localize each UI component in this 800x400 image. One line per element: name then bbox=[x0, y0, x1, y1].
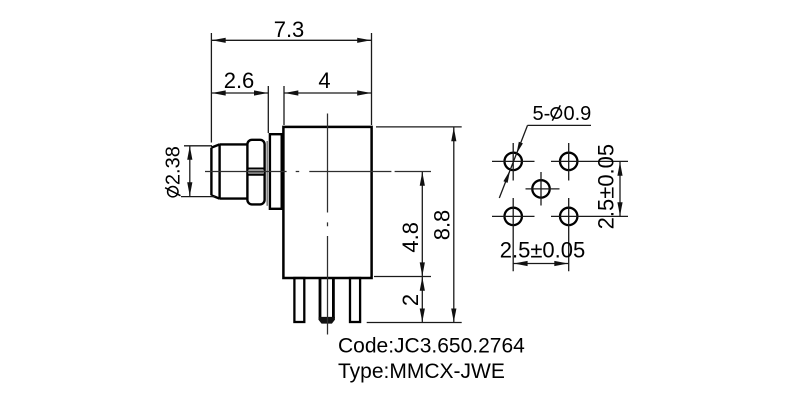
dimension 2.5 bottom arrows bbox=[514, 261, 528, 266]
horizontal centerline bbox=[205, 171, 431, 173]
contact slot upper line bbox=[247, 168, 264, 170]
hole MID circle bbox=[532, 180, 549, 197]
dimension 4.8 arrows bbox=[420, 172, 425, 186]
svg-text:Type:MMCX-JWE: Type:MMCX-JWE bbox=[338, 360, 505, 383]
extension line 4.8/2 boundary (y=276.5) bbox=[374, 276, 431, 278]
pin 1 (left) bbox=[294, 278, 304, 322]
flange bbox=[270, 134, 282, 209]
svg-text:5-: 5- bbox=[533, 103, 551, 125]
dimension 7.3 line bbox=[211, 39, 371, 41]
svg-text:2.6: 2.6 bbox=[224, 68, 255, 93]
dimension 2.5 right arrows bbox=[617, 162, 622, 176]
dimension 2.5 right label bbox=[594, 144, 619, 229]
svg-text:4.8: 4.8 bbox=[398, 222, 423, 253]
leader arrow upper bbox=[517, 142, 523, 154]
svg-text:2.5±0.05: 2.5±0.05 bbox=[594, 144, 619, 229]
hole TR circle bbox=[560, 153, 577, 170]
extension line right (x=371.5) bbox=[371, 33, 373, 125]
contact slot gray band bbox=[248, 170, 264, 173]
hole BL circle bbox=[505, 208, 522, 225]
dimension 4 line bbox=[284, 92, 372, 94]
svg-text:2.5±0.05: 2.5±0.05 bbox=[500, 238, 585, 263]
dimension 2 line bbox=[421, 277, 423, 323]
leader 5-dia0.9 underline bbox=[528, 124, 592, 126]
extension line 4 left (x=284) bbox=[283, 86, 285, 125]
hole BR cross bbox=[551, 198, 628, 271]
body rectangle bbox=[283, 127, 371, 278]
barrel bottom edge bbox=[220, 197, 248, 199]
svg-text:0.9: 0.9 bbox=[564, 103, 592, 125]
dia 2.38 label bbox=[163, 146, 185, 197]
dimension 8.8 label bbox=[430, 210, 455, 241]
connector nose face bbox=[210, 148, 212, 196]
thin ring (gray) bbox=[266, 141, 268, 206]
svg-text:7.3: 7.3 bbox=[274, 17, 305, 42]
nose chamfer top bbox=[211, 144, 219, 147]
svg-text:Code:JC3.650.2764: Code:JC3.650.2764 bbox=[338, 335, 525, 358]
hole TL circle bbox=[505, 153, 522, 170]
dimension 4.8 line bbox=[421, 172, 423, 276]
extension line 2.6 right (x=268.3) bbox=[267, 86, 269, 133]
leader 5-dia0.9 diagonal bbox=[499, 125, 527, 198]
dia 2.38 extension top bbox=[184, 145, 212, 147]
pin 2 (center) walls bbox=[320, 278, 333, 318]
dimension 8.8 arrows bbox=[451, 127, 456, 141]
contact slot lower line bbox=[247, 174, 264, 176]
dia 2.38 dimension line bbox=[189, 146, 191, 196]
nose chamfer bottom bbox=[211, 195, 219, 198]
leader arrow lower bbox=[503, 170, 510, 183]
extension line body top right (y=126.9) bbox=[376, 126, 462, 128]
dimension 2.6 line bbox=[211, 92, 268, 94]
dimension 2.5 bottom line bbox=[513, 263, 569, 265]
svg-text:8.8: 8.8 bbox=[430, 210, 455, 241]
hole MID cross bbox=[526, 172, 560, 206]
dimension 2.6 arrows bbox=[212, 90, 226, 95]
extension line pin bottom (y=322.5) bbox=[367, 322, 462, 324]
extension line left (x=211.4) bbox=[210, 33, 212, 143]
dimension 7.3 arrows bbox=[212, 38, 226, 43]
bulge ring bbox=[247, 140, 264, 205]
pin 3 (right) bbox=[350, 278, 360, 322]
hole TL cross bbox=[492, 143, 535, 181]
dia 2.38 extension bottom bbox=[181, 196, 215, 198]
svg-text:2.38: 2.38 bbox=[163, 146, 185, 185]
svg-text:2: 2 bbox=[398, 294, 423, 306]
dimension 4.8 label bbox=[398, 222, 423, 253]
hole BR circle bbox=[560, 208, 577, 225]
hole BL cross bbox=[492, 198, 535, 271]
dimension 8.8 line bbox=[453, 127, 455, 322]
dimension 2.5 right line bbox=[619, 162, 621, 216]
dimension 4 arrows bbox=[285, 90, 299, 95]
hole TR cross bbox=[551, 143, 628, 181]
dia 2.38 arrows bbox=[187, 146, 192, 160]
pin 2 chamfered tip bbox=[319, 317, 335, 324]
dimension 2 arrows bbox=[420, 277, 425, 291]
vertical centerline bbox=[327, 114, 329, 335]
nose/barrel junction line bbox=[218, 144, 220, 198]
svg-text:4: 4 bbox=[318, 68, 330, 93]
barrel top edge bbox=[220, 143, 248, 145]
dimension 2 label bbox=[398, 294, 423, 306]
